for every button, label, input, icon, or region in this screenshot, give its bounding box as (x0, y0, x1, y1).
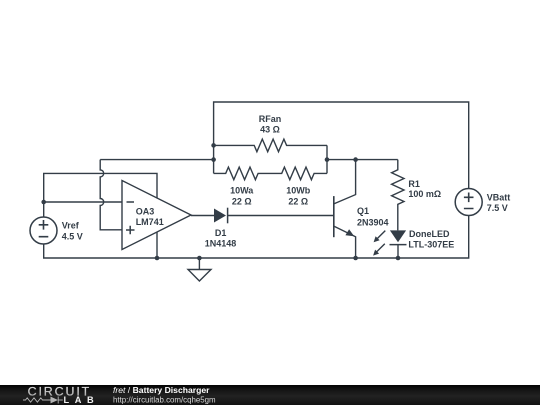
svg-text:100 mΩ: 100 mΩ (408, 189, 441, 199)
svg-text:LTL-307EE: LTL-307EE (408, 240, 454, 250)
svg-text:VBatt: VBatt (487, 193, 511, 203)
svg-text:D1: D1 (215, 228, 227, 238)
svg-text:Q1: Q1 (357, 206, 369, 216)
svg-text:RFan: RFan (259, 114, 282, 124)
svg-text:10Wb: 10Wb (286, 186, 311, 196)
svg-text:LM741: LM741 (136, 217, 164, 227)
svg-text:22 Ω: 22 Ω (288, 196, 308, 206)
svg-text:10Wa: 10Wa (230, 186, 254, 196)
svg-text:2N3904: 2N3904 (357, 218, 389, 228)
svg-text:7.5 V: 7.5 V (487, 203, 508, 213)
svg-text:LAB: LAB (64, 395, 100, 405)
svg-text:DoneLED: DoneLED (409, 229, 450, 239)
svg-text:R1: R1 (408, 179, 420, 189)
svg-text:fret / Battery Discharger: fret / Battery Discharger (113, 385, 210, 395)
svg-text:OA3: OA3 (136, 207, 155, 217)
svg-text:http://circuitlab.com/cqhe5gm: http://circuitlab.com/cqhe5gm (113, 395, 216, 404)
svg-text:1N4148: 1N4148 (205, 239, 237, 249)
svg-text:Vref: Vref (62, 221, 80, 231)
svg-text:4.5 V: 4.5 V (62, 231, 83, 241)
svg-text:22 Ω: 22 Ω (232, 196, 252, 206)
svg-text:43 Ω: 43 Ω (260, 125, 280, 135)
